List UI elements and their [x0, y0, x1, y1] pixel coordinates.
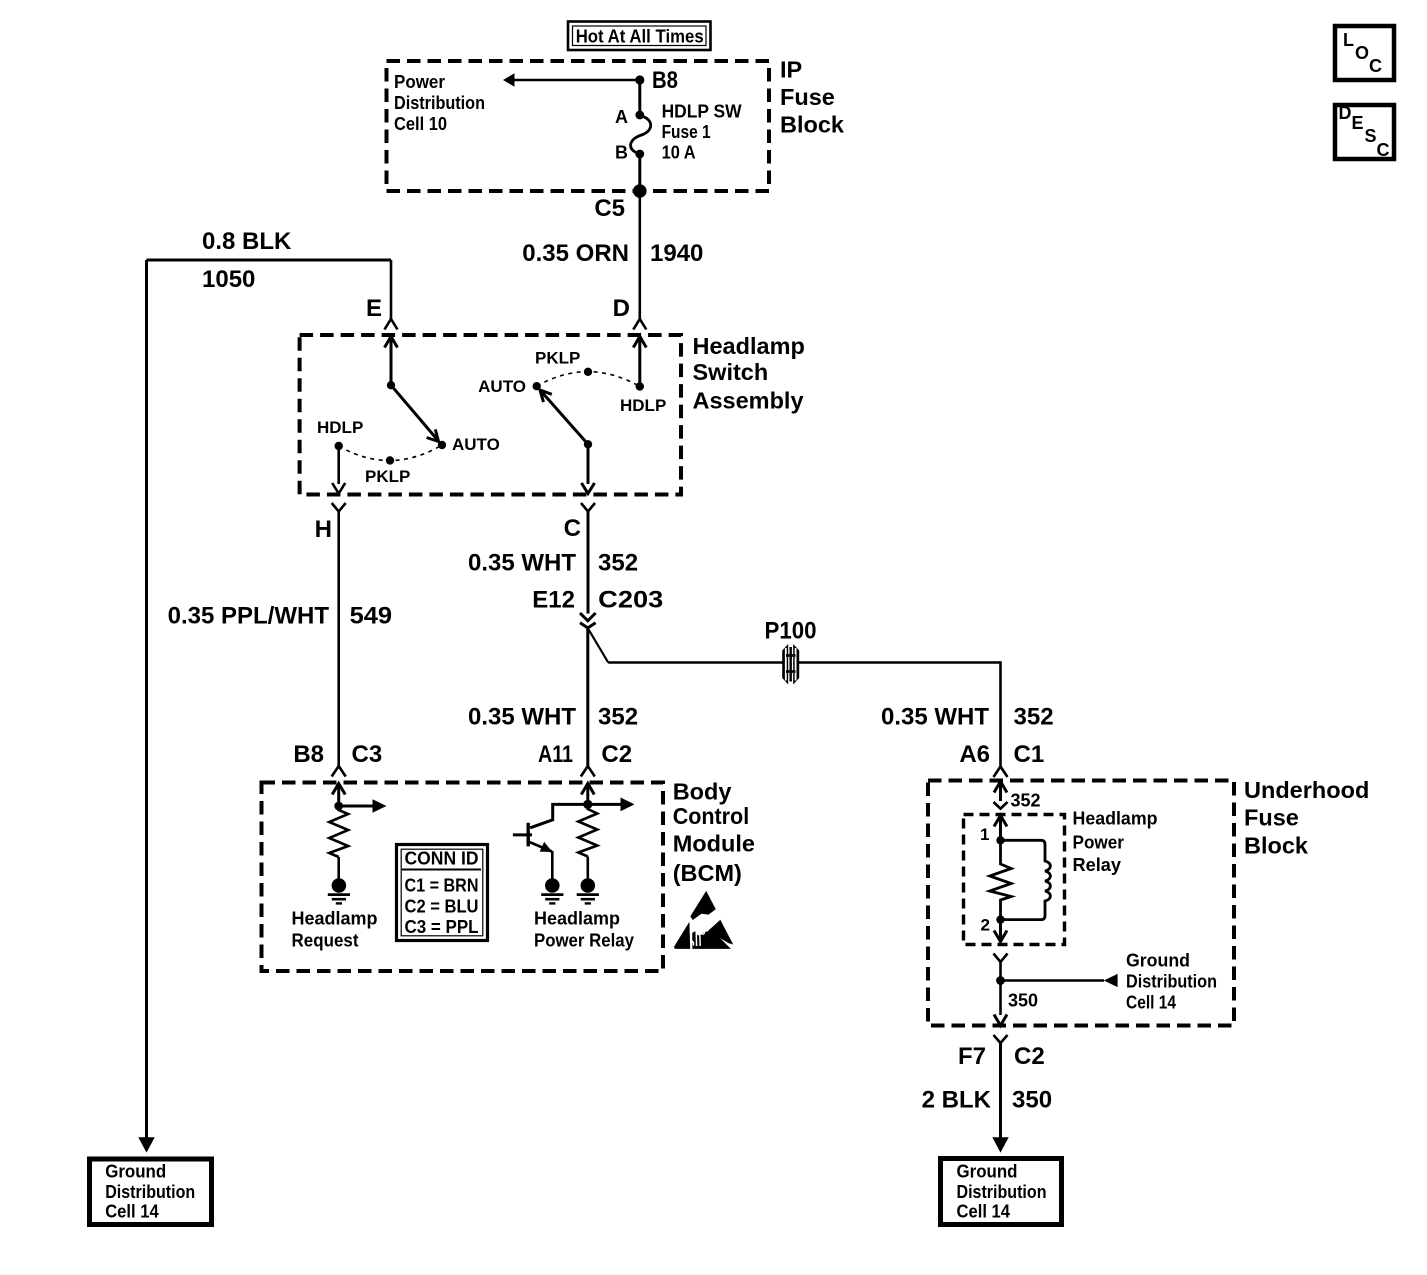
in-line connector E12 C203	[532, 587, 663, 629]
wire B8 to off-page arrow	[514, 79, 640, 82]
svg-text:Relay: Relay	[1073, 855, 1122, 875]
svg-text:C: C	[1377, 140, 1390, 160]
fuse value label	[662, 102, 742, 163]
Headlamp Power Relay inner dashed box	[964, 815, 1065, 945]
IP Fuse Block label	[780, 57, 845, 138]
relay pin 1 entry arrow	[999, 817, 1002, 840]
right switch PKLP contact	[584, 368, 592, 376]
svg-text:Cell 14: Cell 14	[105, 1202, 159, 1222]
connector A11/C2 caret at BCM	[581, 766, 595, 777]
svg-text:D: D	[1339, 103, 1352, 123]
svg-text:2: 2	[981, 916, 990, 935]
left Ground Distribution Cell 14 box	[90, 1159, 212, 1225]
wire horizontal to P100	[608, 661, 783, 664]
svg-text:1050: 1050	[202, 266, 255, 293]
svg-text:C: C	[564, 515, 581, 542]
svg-text:350: 350	[1008, 991, 1038, 1011]
left switch: pin E entry arrow	[390, 338, 393, 385]
svg-text:C203: C203	[598, 587, 663, 614]
svg-text:Distribution: Distribution	[105, 1182, 195, 1202]
svg-text:C1: C1	[1014, 741, 1045, 768]
svg-text:Cell 10: Cell 10	[394, 114, 447, 134]
BCM pin B8 entry arrow	[337, 785, 340, 806]
relay pin 1 node	[996, 836, 1004, 844]
Underhood Fuse Block dashed box	[928, 781, 1234, 1026]
svg-text:A6: A6	[959, 741, 990, 768]
svg-text:Switch: Switch	[693, 359, 769, 385]
wire 2 BLK 350 to ground	[999, 1042, 1002, 1139]
svg-text:AUTO: AUTO	[452, 435, 500, 454]
svg-text:352: 352	[598, 550, 638, 577]
Power Distribution Cell 10 label	[394, 72, 485, 134]
node B8	[635, 75, 644, 84]
svg-text:Block: Block	[780, 112, 845, 138]
svg-text:Power Relay: Power Relay	[534, 931, 634, 951]
wire fuse B to junction C5	[638, 154, 641, 191]
Ground Distribution Cell 14 reference label	[1126, 951, 1217, 1013]
svg-text:A11: A11	[538, 741, 573, 768]
svg-text:0.35 WHT: 0.35 WHT	[881, 704, 989, 731]
wire node to transistor collector	[530, 804, 588, 827]
wire to ground distribution off-page	[1001, 979, 1105, 982]
IP Fuse Block dashed box	[387, 61, 770, 191]
svg-text:H: H	[315, 516, 332, 543]
wire to ground node	[999, 961, 1002, 1015]
fuse pin B	[635, 150, 644, 159]
svg-text:0.35 WHT: 0.35 WHT	[468, 704, 576, 731]
svg-text:PKLP: PKLP	[365, 467, 410, 486]
svg-text:O: O	[1355, 43, 1369, 63]
wire P100 to underhood, 0.35 WHT 352	[799, 661, 1001, 664]
svg-text:0.35 WHT: 0.35 WHT	[468, 550, 576, 577]
svg-text:Cell 14: Cell 14	[957, 1202, 1011, 1222]
Hot At All Times banner	[568, 22, 711, 51]
headlamp request signal arrow	[339, 805, 373, 808]
svg-text:1: 1	[980, 825, 989, 844]
connector pin H (Y)	[332, 503, 346, 512]
arrow into right ground box	[992, 1137, 1008, 1152]
transistor Q (BCM driver)	[513, 823, 552, 852]
svg-text:C2: C2	[1014, 1043, 1045, 1070]
relay pin 2 node	[996, 915, 1004, 923]
svg-text:Ground: Ground	[957, 1162, 1018, 1182]
svg-text:Distribution: Distribution	[957, 1182, 1047, 1202]
relay coil resistor	[990, 840, 1011, 919]
ground headlamp request	[328, 878, 350, 903]
svg-text:Ground: Ground	[105, 1162, 166, 1182]
ground relay resistor	[577, 878, 599, 903]
ESD sensitive symbol	[674, 891, 733, 949]
pin F7 exit arrow	[994, 1015, 1007, 1026]
svg-text:Body: Body	[673, 779, 732, 805]
connector pin C (Y)	[581, 503, 595, 512]
arrow into left ground box	[138, 1137, 154, 1152]
wire E drop	[390, 260, 393, 319]
svg-text:P100: P100	[765, 618, 817, 645]
fuse HDLP SW Fuse 1 10 A (element)	[631, 116, 651, 155]
wire H to BCM B8/C3, 0.35 PPL/WHT 549	[337, 511, 340, 766]
svg-text:0.35 PPL/WHT: 0.35 PPL/WHT	[168, 603, 330, 630]
svg-text:0.35 ORN: 0.35 ORN	[522, 240, 629, 267]
right switch AUTO contact	[533, 382, 541, 390]
svg-text:C3: C3	[352, 741, 383, 768]
svg-text:B: B	[615, 143, 628, 163]
svg-text:HDLP SW: HDLP SW	[662, 102, 742, 122]
left switch travel arc	[339, 445, 442, 461]
connector F7/C2 Y below box	[994, 1035, 1008, 1043]
Headlamp Switch Assembly dashed box	[300, 335, 681, 495]
svg-text:Fuse: Fuse	[1244, 805, 1299, 831]
wire B8 to fuse pin A	[638, 80, 641, 115]
right switch wiper arm to AUTO	[540, 390, 588, 444]
relay pin 2 exit arrow	[999, 920, 1002, 940]
svg-text:Headlamp: Headlamp	[693, 333, 805, 359]
connector B8/C3 caret at BCM	[332, 766, 346, 777]
wire resistor to ground	[337, 857, 340, 879]
Body Control Module dashed box	[262, 783, 664, 972]
wire emitter to ground	[551, 851, 554, 879]
svg-text:C2: C2	[601, 741, 632, 768]
svg-text:D: D	[613, 295, 630, 322]
svg-text:HDLP: HDLP	[620, 396, 666, 415]
fuse pin A	[635, 111, 644, 120]
svg-text:Power: Power	[394, 72, 445, 92]
svg-text:Cell 14: Cell 14	[1126, 993, 1176, 1013]
connector A6/C1 caret at Underhood Fuse Block	[994, 767, 1008, 778]
Headlamp Power Relay label (underhood)	[1073, 809, 1158, 876]
svg-text:0.8 BLK: 0.8 BLK	[202, 228, 292, 255]
Headlamp Switch Assembly label	[693, 333, 805, 414]
svg-text:B8: B8	[652, 67, 678, 94]
svg-text:E: E	[366, 295, 382, 322]
relay connector Y below inner box	[994, 954, 1008, 963]
svg-text:Ground: Ground	[1126, 951, 1190, 971]
svg-text:Headlamp: Headlamp	[534, 909, 620, 929]
svg-text:Control: Control	[673, 803, 750, 829]
svg-text:Block: Block	[1244, 833, 1309, 859]
left switch common node	[387, 381, 395, 389]
connector pin E caret	[385, 319, 398, 330]
svg-text:350: 350	[1012, 1087, 1052, 1114]
right Ground Distribution Cell 14 box	[941, 1159, 1062, 1225]
svg-text:352: 352	[598, 704, 638, 731]
headlamp power relay node	[583, 800, 592, 809]
svg-text:Headlamp: Headlamp	[292, 909, 378, 929]
left switch wiper arm to AUTO	[391, 385, 439, 441]
svg-text:IP: IP	[780, 57, 802, 83]
ground transistor emitter	[541, 878, 563, 903]
svg-text:Fuse: Fuse	[780, 84, 835, 110]
DESC reference box	[1335, 103, 1394, 160]
wire below C203 to BCM A11/C2	[586, 628, 589, 767]
LOC reference box	[1335, 26, 1394, 80]
svg-text:Distribution: Distribution	[1126, 972, 1217, 992]
svg-text:E12: E12	[532, 587, 575, 614]
svg-text:549: 549	[350, 603, 393, 630]
left switch AUTO contact	[438, 441, 446, 449]
relay coil branch	[1001, 840, 1051, 919]
ground branch node	[996, 976, 1005, 985]
svg-text:L: L	[1343, 30, 1354, 50]
svg-text:E: E	[1352, 113, 1364, 133]
svg-text:C1 = BRN: C1 = BRN	[405, 876, 479, 896]
svg-text:B8: B8	[293, 741, 324, 768]
BCM pin A11 entry arrow	[586, 785, 589, 804]
pin A6 entry arrow	[999, 783, 1002, 801]
wire 0.8 BLK 1050 top-left horizontal	[147, 259, 392, 262]
svg-text:10 A: 10 A	[662, 143, 696, 163]
svg-text:Hot At All Times: Hot At All Times	[576, 27, 704, 47]
relay connector Y at inner box	[994, 802, 1008, 809]
ground wire left vertical	[145, 260, 148, 1139]
svg-text:S: S	[1365, 126, 1377, 146]
wire C5 to D, 0.35 ORN 1940	[638, 191, 641, 319]
right switch travel arc	[537, 372, 640, 387]
svg-text:1940: 1940	[650, 240, 703, 267]
headlamp request node	[334, 802, 343, 811]
right switch common node	[584, 440, 592, 448]
svg-text:A: A	[615, 107, 628, 127]
resistor headlamp power relay	[578, 804, 597, 856]
right switch: pin D entry arrow	[638, 338, 641, 387]
svg-text:Distribution: Distribution	[394, 93, 485, 113]
resistor headlamp request	[329, 806, 348, 857]
svg-text:352: 352	[1011, 791, 1041, 811]
svg-text:PKLP: PKLP	[535, 349, 580, 368]
left switch HDLP to pin H wire	[337, 446, 340, 484]
off-page arrow to Power Distribution	[503, 73, 515, 87]
off-page arrow to Ground Distribution	[1104, 974, 1118, 987]
svg-text:C2 = BLU: C2 = BLU	[405, 896, 479, 916]
svg-text:F7: F7	[958, 1043, 986, 1070]
svg-text:AUTO: AUTO	[478, 377, 526, 396]
headlamp power relay signal arrow	[588, 803, 622, 806]
Body Control Module (BCM) label	[673, 779, 755, 887]
svg-text:Request: Request	[292, 931, 359, 951]
left switch HDLP contact	[335, 442, 343, 450]
junction C5	[633, 184, 647, 198]
svg-text:Power: Power	[1073, 833, 1125, 853]
svg-text:Fuse 1: Fuse 1	[662, 122, 711, 142]
svg-text:C: C	[1369, 56, 1382, 76]
CONN ID table	[397, 845, 488, 941]
connector pin D caret	[633, 319, 646, 330]
svg-text:HDLP: HDLP	[317, 418, 363, 437]
right switch node to pin C wire	[587, 444, 590, 484]
svg-text:CONN ID: CONN ID	[405, 849, 479, 869]
wire branch diagonal from C203	[589, 630, 609, 663]
wire resistor to ground	[586, 857, 589, 879]
svg-text:Module: Module	[673, 831, 755, 857]
left switch PKLP contact	[386, 456, 394, 464]
Underhood Fuse Block label	[1244, 777, 1369, 859]
svg-text:Assembly: Assembly	[693, 388, 804, 414]
wire C to connector C203, 0.35 WHT 352	[587, 511, 590, 614]
svg-text:352: 352	[1014, 704, 1054, 731]
svg-text:C3 = PPL: C3 = PPL	[405, 917, 479, 937]
svg-text:Headlamp: Headlamp	[1073, 809, 1158, 829]
svg-text:(BCM): (BCM)	[673, 860, 742, 886]
grommet P100	[765, 618, 817, 685]
svg-text:2 BLK: 2 BLK	[922, 1087, 992, 1114]
right switch HDLP contact	[636, 382, 644, 390]
svg-text:Underhood: Underhood	[1244, 777, 1369, 803]
svg-text:C5: C5	[594, 195, 625, 222]
